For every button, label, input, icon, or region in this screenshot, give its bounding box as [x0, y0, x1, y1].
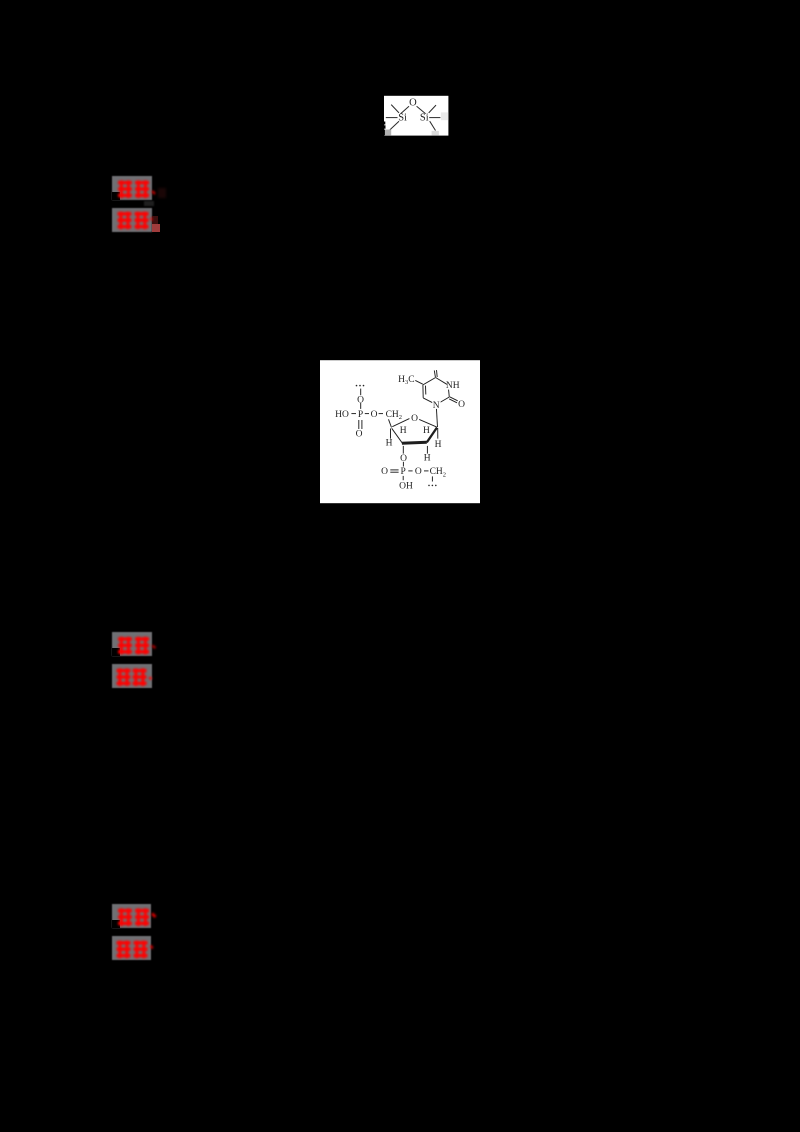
bond O-Si(right) — [417, 106, 426, 113]
svg-text:Si: Si — [398, 112, 407, 123]
svg-text:O: O — [356, 430, 363, 440]
red label group 2 box 1 text — [112, 632, 162, 660]
ellipsis top — [356, 385, 365, 387]
red label group 1 box 1 — [112, 176, 152, 200]
red label group 3 box 2 — [112, 936, 151, 960]
red label group 2 box 1 — [112, 632, 152, 656]
bold bond C3'-C2' — [402, 442, 427, 443]
bond Si(right) methyl right — [429, 117, 440, 119]
svg-text:O: O — [409, 97, 417, 108]
structure box B: thymidine nucleotide — [320, 359, 480, 504]
double bond C5=C6 companion — [425, 386, 427, 395]
red label group 3 box 2 text — [112, 936, 162, 964]
bond Si(left) methyl left — [386, 117, 398, 119]
thymine ring C2-N1 — [436, 397, 449, 405]
svg-text:H: H — [386, 439, 393, 449]
red label group 1 box 1 text — [112, 176, 162, 204]
shared glyph-blob definition — [0, 0, 2, 2]
label mask NH — [447, 380, 460, 389]
bond C3'-O — [402, 446, 404, 454]
bond C2'-H — [426, 446, 428, 454]
svg-text:HO: HO — [335, 410, 349, 420]
structure box A: hexamethyldisiloxane — [384, 95, 449, 136]
svg-text:NH: NH — [446, 381, 460, 391]
double bond O=P lower — [390, 469, 398, 471]
red label group 1 box 2 text — [112, 208, 162, 236]
ellipsis bottom — [428, 485, 436, 487]
bond H3C-C5 — [415, 380, 423, 384]
bond P-O lower — [408, 470, 412, 472]
svg-text:O: O — [400, 454, 407, 464]
thymine ring N3-C2 — [448, 385, 449, 397]
red label group 1 box 2 dark red mark upper — [152, 216, 158, 224]
red label group 3 box 1 text — [112, 904, 162, 932]
svg-text:P: P — [401, 467, 406, 477]
bond C4'-C3' — [392, 428, 403, 443]
red label group 1 box 1 notch — [112, 192, 120, 200]
double bond C2=O right — [450, 397, 458, 401]
bond C1'-H — [437, 428, 439, 439]
red label group 1 box 2 — [112, 208, 152, 232]
svg-text:O: O — [357, 396, 364, 406]
svg-text:H: H — [423, 426, 430, 436]
svg-text:O: O — [371, 410, 378, 420]
red label group 2 box 1 notch — [112, 648, 120, 656]
svg-text:Si: Si — [420, 112, 429, 123]
red label group 2 box 2 — [112, 664, 152, 688]
bond O-P vertical — [360, 403, 362, 409]
bond Si(left) methyl up-left — [391, 105, 399, 113]
bond Si(right) methyl down-right — [430, 121, 436, 130]
bond O-P lower vertical — [402, 462, 404, 467]
bond Si(right) methyl up-right — [429, 105, 436, 113]
faint gray ghost below-right of group 1 box 1 — [144, 201, 154, 206]
svg-text:OH: OH — [399, 481, 413, 491]
double bond P=O down — [358, 420, 360, 429]
bond CH2-dots lower — [431, 476, 433, 481]
bond Si(left) methyl down-left — [390, 121, 399, 130]
red label group 3 box 1 notch — [112, 920, 120, 928]
bond O-CH2 lower — [424, 470, 429, 472]
black marks at left edge — [384, 122, 385, 125]
svg-text:N: N — [433, 401, 440, 411]
red label group 2 box 2 text — [112, 664, 162, 692]
thymine ring C4-N3 — [436, 378, 448, 385]
svg-text:H: H — [400, 426, 407, 436]
label mask N1 — [432, 401, 440, 409]
bond CH2-C4' — [389, 419, 392, 427]
bond P-OH — [402, 476, 404, 480]
bond N1-C1' — [436, 408, 437, 427]
bond O-CH2 — [379, 413, 383, 415]
red label group 3 box 1 — [112, 904, 151, 928]
bold bond C2'-C1' — [427, 428, 437, 443]
bond C4'-ring O — [392, 419, 409, 427]
thymine ring C6-C5 — [422, 385, 424, 398]
bond C4'-H — [390, 429, 392, 439]
svg-text:O: O — [411, 414, 418, 424]
svg-text:O: O — [458, 400, 465, 410]
bond P-O — [365, 413, 369, 415]
scan artifact gray squares — [384, 130, 391, 136]
svg-text:O: O — [381, 467, 388, 477]
bond Si(left)-O — [401, 106, 409, 113]
red label group 1 box 2 red mark lower — [152, 224, 160, 232]
thymine ring C5-C4 — [423, 378, 436, 385]
svg-text:O: O — [415, 467, 422, 477]
double bond C4=O up — [434, 370, 435, 377]
bond ring O-C1' — [419, 419, 437, 427]
thymine ring N1-C6 — [423, 398, 436, 405]
faint ghost mark right of group 1 box 1 — [158, 188, 166, 198]
bond HO-P — [351, 413, 356, 415]
svg-text:H: H — [424, 454, 431, 464]
bond dots-O — [360, 389, 362, 396]
svg-text:P: P — [358, 410, 363, 420]
svg-text:H: H — [435, 440, 442, 450]
